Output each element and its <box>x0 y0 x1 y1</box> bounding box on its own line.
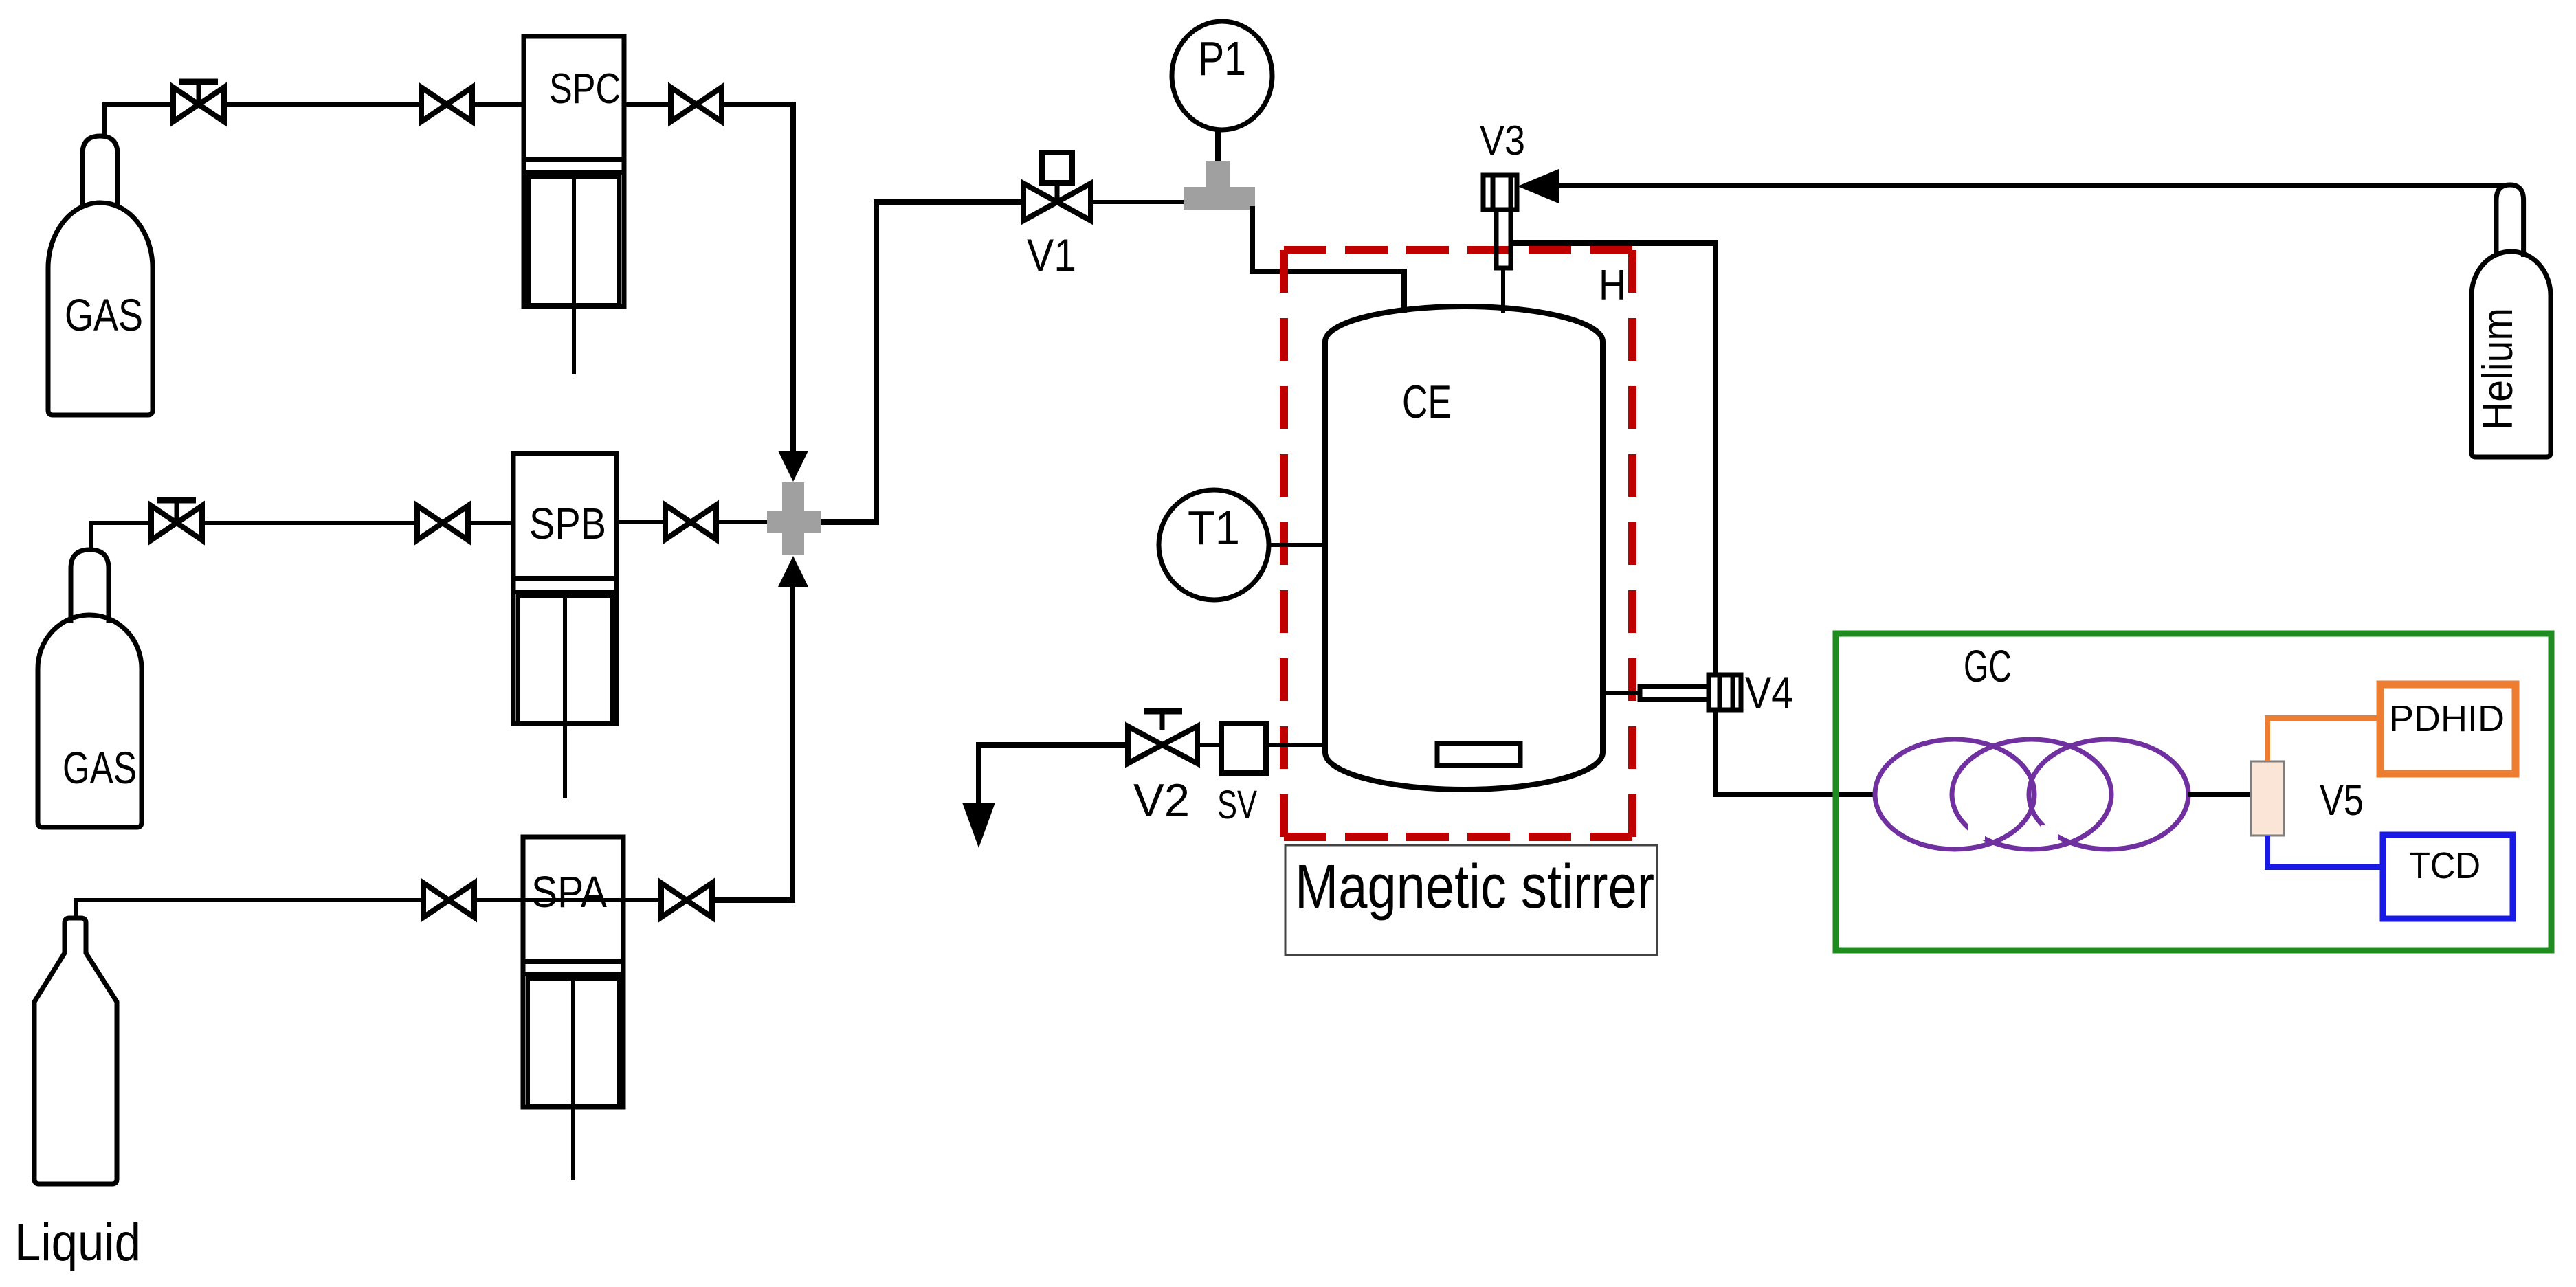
outlet valve SPB <box>665 505 716 539</box>
wire valve to SPC <box>472 102 524 107</box>
wire valve to SPB <box>468 521 513 525</box>
detector TCD box <box>2383 835 2513 919</box>
valve V1 <box>1023 153 1091 221</box>
mixing cross junction (gray) <box>767 482 821 555</box>
valve V4 fitting <box>1709 675 1741 710</box>
inlet valve SPB <box>417 506 468 540</box>
wire cylinder1 to hand valve <box>104 104 173 136</box>
hand valve (cylinder 1 outlet) <box>173 82 224 122</box>
wire V2 to drain corner <box>979 745 1128 804</box>
stem P1 to tee <box>1215 130 1221 165</box>
outlet valve SPC <box>671 87 722 122</box>
svg-text:SPC: SPC <box>549 65 621 113</box>
coil overlap breaks <box>1968 824 1985 840</box>
heater H red dashed box <box>1284 250 1632 837</box>
liquid bottle <box>34 918 117 1184</box>
hand valve (cylinder 2 outlet) <box>151 500 202 540</box>
outlet valve SPA <box>661 883 712 917</box>
gray tee junction <box>1184 161 1255 210</box>
wire SPA valve to up trunk <box>712 587 792 900</box>
svg-text:P1: P1 <box>1198 32 1246 85</box>
helium feed arrow into V3 <box>1518 169 1559 203</box>
wire valve to inlet valve of SPB <box>202 521 417 525</box>
wire SPC valve to down trunk <box>722 104 793 451</box>
svg-text:GAS: GAS <box>65 289 143 340</box>
gas cylinder GAS (top) <box>48 136 153 415</box>
svg-text:TCD: TCD <box>2409 845 2480 886</box>
wire CE to V4 tube <box>1603 691 1644 695</box>
stir bar inside CE <box>1437 743 1520 765</box>
helium cylinder <box>2472 185 2551 457</box>
wire coil to V5 <box>2188 792 2251 797</box>
wire T1 to CE <box>1269 543 1325 547</box>
wire tee to CE top <box>1252 206 1404 313</box>
wire V4 to GC column <box>1716 710 1877 794</box>
svg-text:Liquid: Liquid <box>14 1213 141 1272</box>
V4 sample tube <box>1640 686 1709 700</box>
svg-text:SPA: SPA <box>531 867 607 917</box>
wire cylinder2 to hand valve <box>91 523 151 550</box>
svg-text:V3: V3 <box>1480 117 1525 164</box>
svg-text:CE: CE <box>1402 376 1452 428</box>
svg-text:Helium: Helium <box>2474 308 2522 430</box>
svg-text:V2: V2 <box>1133 774 1190 827</box>
pressure gauge P1 <box>1172 21 1272 130</box>
svg-text:V4: V4 <box>1745 667 1793 718</box>
wire SPB to outlet valve <box>617 520 665 524</box>
valve V2 <box>1128 711 1197 763</box>
svg-text:T1: T1 <box>1188 501 1240 555</box>
wire valve to inlet valve of SPC <box>224 102 421 107</box>
thermometer T1 <box>1159 490 1269 600</box>
svg-text:SV: SV <box>1217 783 1257 827</box>
drain arrow <box>962 803 995 848</box>
blue wire V5 to TCD <box>2267 836 2383 867</box>
safety valve SV box <box>1221 724 1266 773</box>
wire V3 branch to V4 <box>1511 243 1716 675</box>
wire bottle to inlet valve of SPA <box>76 900 661 918</box>
gas cylinder GAS (middle) <box>38 550 142 827</box>
detector PDHID box <box>2380 684 2516 774</box>
wire V2 to SV <box>1197 743 1221 747</box>
svg-text:V5: V5 <box>2320 776 2364 825</box>
syringe pump SPC <box>524 36 624 374</box>
wire helium bottle to V3 <box>1559 183 2507 188</box>
svg-text:SPB: SPB <box>529 499 606 548</box>
svg-text:V1: V1 <box>1027 230 1076 280</box>
inlet valve SPC <box>421 87 472 122</box>
valve V3 fitting <box>1483 175 1517 268</box>
syringe pump SPB <box>513 454 617 798</box>
inlet valve SPA <box>423 883 474 917</box>
wire SPC to outlet valve <box>624 102 671 107</box>
svg-text:H: H <box>1599 262 1626 309</box>
wire SPB valve to mixing cross <box>716 520 770 524</box>
orange wire V5 to PDHID <box>2267 718 2380 761</box>
valve V5 rotor <box>2251 761 2284 836</box>
wire V1 to tee <box>1091 200 1186 204</box>
svg-text:GC: GC <box>1964 640 2012 691</box>
svg-text:Magnetic stirrer: Magnetic stirrer <box>1295 853 1654 921</box>
cell CE vessel <box>1325 306 1603 790</box>
svg-text:PDHID: PDHID <box>2389 698 2505 739</box>
wire SV to CE <box>1266 743 1325 747</box>
magnetic stirrer box <box>1285 845 1657 955</box>
GC column coil <box>1875 739 2188 849</box>
syringe pump SPA <box>523 837 623 1180</box>
arrow into mixing cross from bottom <box>778 556 808 587</box>
wire V3 to CE dome <box>1501 268 1505 313</box>
svg-text:GAS: GAS <box>63 742 137 793</box>
wire cross to riser to V1 <box>821 202 1023 522</box>
arrow into mixing cross from top <box>778 451 808 482</box>
GC green box <box>1836 634 2551 950</box>
